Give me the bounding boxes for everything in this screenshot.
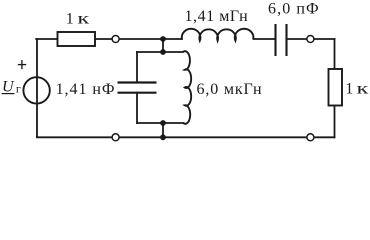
terminal circle T2 (top, after C2) [307, 36, 314, 43]
wire: C1 bottom stub [136, 93, 138, 123]
wire: tank bottom rail [137, 122, 184, 124]
inductor L1 1.41 mH (horizontal coil) [182, 29, 254, 41]
junction dot node A (top rail) [160, 36, 166, 42]
source label underline [2, 93, 15, 95]
wire: top rail node A to L1 [163, 38, 182, 40]
junction dot tank top [160, 49, 166, 55]
svg-text:1,41 мГн: 1,41 мГн [185, 8, 249, 25]
wire: tank bottom stub to bottom rail [162, 123, 164, 137]
resistor R2 1k (load, right) [329, 69, 343, 106]
wire: tank top rail [137, 51, 183, 53]
wire: node A stub down to tank top [162, 39, 164, 52]
svg-text:U: U [2, 78, 15, 95]
svg-text:6,0 мкГн: 6,0 мкГн [197, 81, 263, 98]
capacitor C1 1.41 nF (tank) plates [118, 83, 157, 93]
terminal circle T3 (bottom right) [307, 134, 314, 141]
terminal circle T4 (bottom left) [112, 134, 119, 141]
wire: top rail C2 to right corner [288, 38, 335, 40]
junction dot tank bottom [160, 120, 166, 126]
wire: R2 bottom to bottom rail [334, 106, 336, 138]
svg-text:6,0 пФ: 6,0 пФ [268, 1, 320, 18]
wire: right vertical to R2 top [334, 39, 336, 69]
junction dot node B (bottom rail) [160, 134, 166, 140]
inductor L2 6.0 uH (vertical coil) [183, 51, 191, 124]
wire: bottom rail [37, 136, 335, 138]
svg-text:к: к [77, 10, 89, 27]
wire: top rail from left corner to R1 [36, 38, 57, 40]
wire: C1 top stub [136, 52, 138, 83]
wire: top rail from R1 to node A [95, 38, 163, 40]
voltage source Uг [23, 77, 49, 103]
svg-text:1: 1 [345, 81, 353, 98]
polarity plus sign [18, 60, 26, 69]
svg-text:г: г [16, 82, 21, 96]
capacitor C2 6.0 pF (series, top) plates [276, 24, 287, 56]
wire: left rail vertical [36, 39, 38, 137]
wire: top rail L1 to C2 [254, 38, 275, 40]
svg-text:1,41 нФ: 1,41 нФ [56, 81, 116, 98]
terminal circle T1 (top, after R1) [112, 36, 119, 43]
resistor R1 1k (series, top) [58, 32, 96, 46]
svg-text:к: к [357, 81, 369, 98]
svg-text:1: 1 [66, 10, 74, 27]
